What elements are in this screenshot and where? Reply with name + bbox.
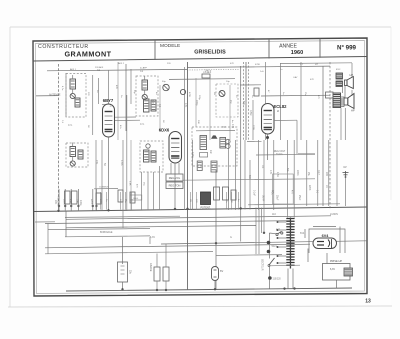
svg-text:GRISELIDIS: GRISELIDIS — [194, 50, 226, 56]
svg-text:47K: 47K — [310, 79, 314, 81]
svg-text:ANTENNE: ANTENNE — [49, 94, 61, 97]
svg-text:H.F.: H.F. — [222, 126, 227, 129]
svg-text:REG: REG — [133, 198, 138, 200]
svg-text:C.V.: C.V. — [140, 123, 145, 126]
svg-text:220p: 220p — [198, 95, 200, 101]
svg-text:4x AFF: 4x AFF — [140, 67, 148, 70]
svg-text:GRAMMONT: GRAMMONT — [64, 50, 111, 59]
svg-text:MODELE: MODELE — [160, 43, 180, 49]
svg-text:6DX6: 6DX6 — [159, 128, 170, 133]
svg-text:G: G — [230, 236, 232, 239]
svg-text:REG.VOLT: REG.VOLT — [274, 151, 286, 153]
svg-text:100p: 100p — [79, 200, 82, 206]
svg-text:10n: 10n — [209, 150, 212, 155]
svg-text:110: 110 — [272, 213, 276, 216]
svg-text:AFF 1: AFF 1 — [70, 68, 77, 71]
svg-text:470: 470 — [231, 124, 234, 129]
svg-text:HP: HP — [350, 73, 354, 77]
svg-text:27K: 27K — [95, 160, 98, 165]
svg-text:1M: 1M — [213, 92, 215, 95]
svg-text:470K: 470K — [188, 92, 190, 98]
svg-text:0,47: 0,47 — [317, 170, 320, 175]
svg-text:6,3V: 6,3V — [330, 268, 335, 271]
svg-text:4,7K: 4,7K — [151, 100, 154, 105]
svg-text:50p: 50p — [242, 101, 245, 106]
svg-text:2,2M: 2,2M — [191, 152, 194, 157]
svg-text:1,5K: 1,5K — [276, 172, 279, 177]
svg-text:25uF: 25uF — [276, 195, 278, 201]
svg-text:6V: 6V — [220, 269, 223, 273]
svg-text:REG.TON: REG.TON — [169, 184, 181, 188]
svg-text:100K: 100K — [63, 199, 65, 205]
svg-text:6V4: 6V4 — [322, 234, 330, 238]
svg-text:110/220: 110/220 — [273, 278, 282, 280]
svg-text:470K: 470K — [255, 64, 261, 66]
svg-text:TOUCHE: TOUCHE — [57, 196, 59, 206]
svg-text:SECTEUR: SECTEUR — [261, 259, 264, 271]
svg-text:220 AFF: 220 AFF — [95, 66, 104, 69]
svg-text:CADRE: CADRE — [149, 263, 152, 272]
svg-text:50K: 50K — [197, 120, 199, 124]
svg-text:C.V.: C.V. — [68, 124, 73, 127]
svg-text:COMMUT.: COMMUT. — [99, 186, 110, 188]
svg-text:2x300V: 2x300V — [330, 213, 339, 216]
svg-text:0,1uF: 0,1uF — [253, 190, 255, 196]
svg-text:AFF 2: AFF 2 — [118, 62, 125, 65]
svg-text:REG.VOL: REG.VOL — [169, 176, 181, 180]
svg-text:47K: 47K — [230, 63, 234, 65]
svg-text:INT.: INT. — [276, 229, 281, 232]
svg-text:47K: 47K — [115, 85, 117, 89]
svg-text:6V4: 6V4 — [300, 232, 305, 235]
svg-text:220K: 220K — [296, 170, 299, 176]
svg-text:220p: 220p — [195, 100, 198, 106]
svg-text:PRISE HP: PRISE HP — [330, 259, 342, 263]
svg-text:25u: 25u — [307, 172, 310, 177]
svg-text:1M: 1M — [229, 100, 232, 103]
svg-text:0,5M: 0,5M — [249, 110, 252, 115]
svg-text:POTENT.: POTENT. — [200, 207, 210, 210]
svg-text:6BY7: 6BY7 — [103, 98, 114, 103]
svg-text:CAV: CAV — [293, 76, 298, 79]
svg-text:50c/s: 50c/s — [272, 246, 278, 248]
svg-text:220K: 220K — [90, 199, 92, 205]
svg-text:50K: 50K — [248, 175, 250, 180]
svg-text:1K: 1K — [325, 185, 327, 188]
svg-text:N° 999: N° 999 — [337, 45, 357, 52]
svg-text:PUISS.: PUISS. — [276, 154, 284, 156]
svg-text:1960: 1960 — [291, 50, 303, 56]
svg-text:SURF: SURF — [262, 195, 264, 202]
svg-text:47K: 47K — [184, 103, 187, 108]
svg-text:220K: 220K — [308, 185, 310, 191]
svg-text:BOBINAGE: BOBINAGE — [100, 231, 113, 234]
svg-text:CV: CV — [343, 166, 347, 169]
svg-text:EXC: EXC — [336, 69, 341, 71]
svg-text:6,8K: 6,8K — [129, 181, 131, 186]
svg-text:ANNEE: ANNEE — [279, 44, 297, 50]
svg-text:25uF: 25uF — [298, 195, 300, 201]
svg-text:50u: 50u — [286, 168, 289, 173]
svg-text:220 AFF: 220 AFF — [203, 71, 212, 74]
svg-text:47K: 47K — [269, 170, 272, 175]
svg-text:HP: HP — [351, 109, 355, 113]
svg-text:POL.: POL. — [271, 190, 273, 196]
svg-text:470K: 470K — [120, 160, 123, 166]
svg-text:220: 220 — [325, 172, 328, 177]
svg-text:6,3V: 6,3V — [150, 236, 155, 239]
svg-text:ECL82: ECL82 — [273, 104, 287, 109]
svg-text:13: 13 — [365, 299, 371, 305]
